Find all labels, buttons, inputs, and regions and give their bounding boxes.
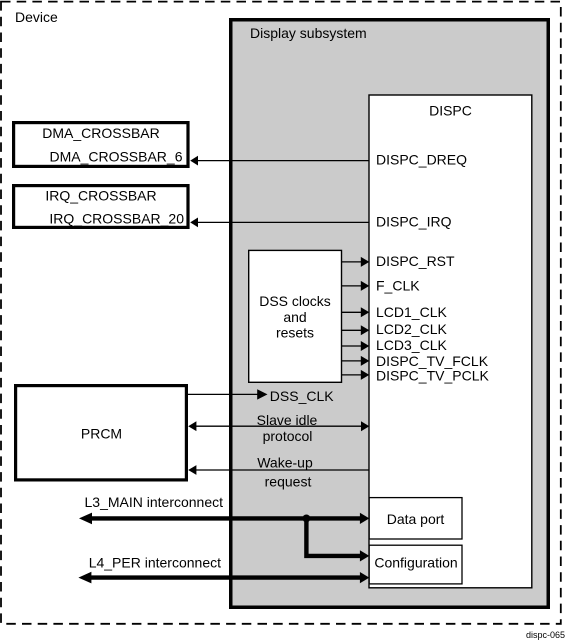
svg-text:Device: Device — [15, 9, 58, 25]
wire DISPC_IRQ to IRQ_CROSSBAR_20 — [190, 214, 451, 230]
svg-text:DISPC_TV_PCLK: DISPC_TV_PCLK — [376, 367, 489, 383]
wire F_CLK — [342, 277, 421, 293]
wire LCD1_CLK — [342, 304, 448, 320]
svg-text:request: request — [265, 473, 312, 489]
svg-text:DISPC_DREQ: DISPC_DREQ — [376, 151, 467, 167]
svg-text:DSS_CLK: DSS_CLK — [270, 388, 334, 404]
svg-text:LCD3_CLK: LCD3_CLK — [376, 337, 447, 353]
wire LCD3_CLK — [342, 337, 448, 353]
box DSS clocks and resets — [249, 250, 342, 382]
box IRQ_CROSSBAR — [14, 186, 188, 228]
svg-text:DISPC_RST: DISPC_RST — [376, 253, 455, 269]
wire DISPC_DREQ to DMA_CROSSBAR_6 — [190, 151, 467, 167]
svg-text:L4_PER interconnect: L4_PER interconnect — [89, 554, 221, 570]
svg-text:dispc-065: dispc-065 — [526, 630, 565, 640]
box PRCM — [16, 386, 187, 480]
node figure id dispc-065 — [526, 630, 565, 640]
box DMA_CROSSBAR — [14, 123, 188, 167]
svg-text:protocol: protocol — [263, 428, 313, 444]
svg-text:DSS clocks: DSS clocks — [259, 293, 331, 309]
wire branch from L3 to Configuration — [306, 517, 369, 562]
wire L3_MAIN interconnect — [79, 494, 369, 524]
svg-text:Data port: Data port — [387, 511, 445, 527]
wire Slave idle protocol — [188, 412, 369, 444]
svg-text:Configuration: Configuration — [374, 555, 457, 571]
box Display subsystem — [231, 20, 549, 608]
wire DISPC_TV_FCLK — [342, 353, 489, 369]
box DISPC — [369, 95, 532, 588]
svg-text:DISPC: DISPC — [429, 103, 472, 119]
node Device label — [15, 9, 58, 25]
wire DISPC_RST — [342, 253, 456, 269]
svg-text:LCD2_CLK: LCD2_CLK — [376, 321, 447, 337]
box Data port — [369, 498, 462, 539]
svg-text:resets: resets — [276, 325, 314, 341]
svg-text:DMA_CROSSBAR_6: DMA_CROSSBAR_6 — [49, 148, 182, 164]
svg-text:Display subsystem: Display subsystem — [250, 25, 367, 41]
wire LCD2_CLK — [342, 321, 448, 337]
wire Wake-up request — [188, 454, 369, 489]
junction on L3 line — [303, 515, 311, 523]
svg-text:IRQ_CROSSBAR: IRQ_CROSSBAR — [45, 187, 156, 203]
svg-text:Wake-up: Wake-up — [257, 454, 313, 470]
svg-text:LCD1_CLK: LCD1_CLK — [376, 304, 447, 320]
svg-text:F_CLK: F_CLK — [376, 277, 420, 293]
svg-text:L3_MAIN interconnect: L3_MAIN interconnect — [85, 494, 224, 510]
svg-text:DISPC_IRQ: DISPC_IRQ — [376, 214, 452, 230]
svg-text:DMA_CROSSBAR: DMA_CROSSBAR — [42, 125, 159, 141]
svg-text:and: and — [283, 309, 306, 325]
svg-text:Slave idle: Slave idle — [257, 412, 318, 428]
wire DSS_CLK from PRCM — [187, 388, 334, 404]
svg-text:IRQ_CROSSBAR_20: IRQ_CROSSBAR_20 — [49, 210, 184, 226]
wire L4_PER interconnect — [78, 554, 369, 583]
wire DISPC_TV_PCLK — [342, 367, 490, 383]
box Configuration — [369, 545, 462, 584]
svg-text:PRCM: PRCM — [81, 425, 122, 441]
